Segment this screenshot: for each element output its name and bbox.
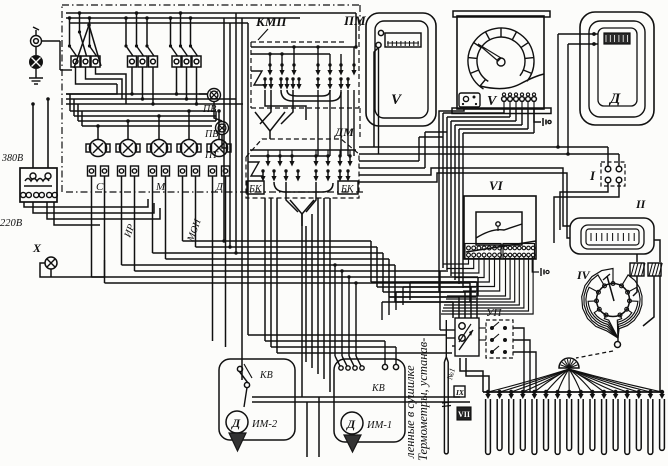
svg-text:ДМ: ДМ — [334, 125, 354, 139]
svg-text:КМП: КМП — [255, 14, 287, 29]
svg-text:БК: БК — [248, 184, 263, 195]
svg-text:Д: Д — [608, 91, 621, 107]
svg-text:С: С — [96, 181, 104, 193]
svg-text:ИМ-2: ИМ-2 — [251, 419, 278, 430]
svg-text:Термометры, устанав-: Термометры, устанав- — [416, 338, 430, 461]
svg-text:Х: Х — [32, 241, 42, 255]
svg-text:I: I — [589, 168, 596, 183]
svg-text:IX: IX — [455, 388, 465, 397]
svg-text:220В: 220В — [0, 218, 23, 229]
svg-text:Д: Д — [231, 416, 241, 430]
svg-text:ПВ: ПВ — [204, 129, 218, 140]
svg-text:380В: 380В — [1, 153, 23, 164]
svg-text:ИМ-1: ИМ-1 — [366, 420, 392, 431]
svg-text:БК: БК — [340, 184, 355, 195]
svg-text:IV: IV — [576, 268, 591, 282]
svg-text:УП: УП — [486, 307, 502, 319]
svg-text:М: М — [155, 181, 166, 193]
svg-text:ленные в сушилке: ленные в сушилке — [403, 365, 417, 459]
svg-text:ПМ: ПМ — [343, 13, 366, 28]
svg-text:КВ: КВ — [259, 370, 273, 381]
svg-text:VI: VI — [489, 178, 504, 193]
svg-text:Д: Д — [346, 417, 356, 431]
svg-text:II: II — [635, 197, 647, 211]
svg-text:КВ: КВ — [371, 383, 385, 394]
svg-text:Д: Д — [215, 181, 224, 193]
svg-text:VII: VII — [458, 410, 470, 419]
